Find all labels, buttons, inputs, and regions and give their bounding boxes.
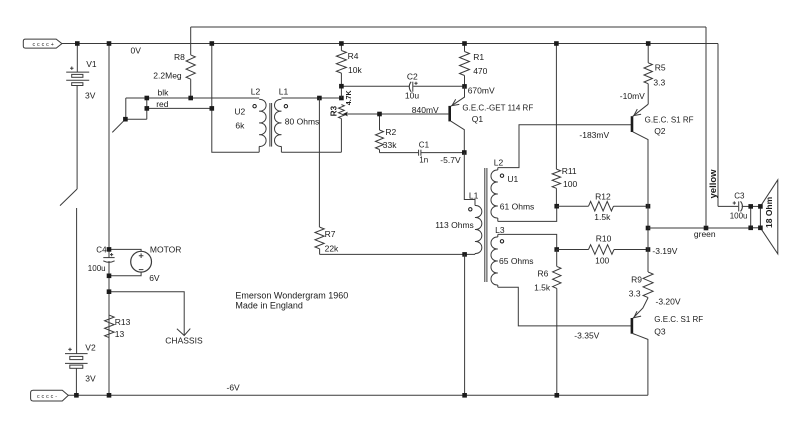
transformer U2 label L2 <box>251 87 261 97</box>
transistor Q2 emitter <box>633 104 648 116</box>
wire motor bottom <box>109 272 141 276</box>
svg-text:Q3: Q3 <box>654 327 666 337</box>
transistor Q2 type label <box>645 115 694 124</box>
transformer U2 designator <box>234 107 245 117</box>
wire V2 to -6V rail <box>75 368 77 395</box>
resistor R13 <box>105 315 115 338</box>
node L1 top junction <box>317 96 322 101</box>
svg-text:R7: R7 <box>325 229 336 239</box>
resistor R12 <box>557 201 648 211</box>
potentiometer R3 element <box>339 105 345 153</box>
svg-text:113 Ohms: 113 Ohms <box>435 220 474 230</box>
svg-text:G.E.C.-GET 114 RF: G.E.C.-GET 114 RF <box>462 103 533 112</box>
switch S1 blade (open) <box>60 189 77 206</box>
node R10 collector junction <box>646 247 651 252</box>
capacitor C3 polarity <box>733 201 736 204</box>
transformer U1 designator <box>507 174 518 184</box>
svg-text:R3: R3 <box>329 105 338 116</box>
node R10 left junction <box>554 247 559 252</box>
node R5 0V junction <box>646 41 651 46</box>
speaker value 18 Ohm <box>764 196 774 228</box>
resistor R13 value <box>115 329 125 339</box>
node R9 voltage label <box>656 296 681 306</box>
battery V1 label <box>86 59 97 69</box>
node blk-loop junction <box>145 96 150 101</box>
transformer U2 secondary winding L1 <box>275 99 282 152</box>
capacitor C4 label <box>96 246 107 255</box>
svg-text:L3: L3 <box>495 225 505 235</box>
title line 2 <box>235 300 303 310</box>
transformer U1 L3 value <box>499 256 534 266</box>
resistor R4 <box>336 44 346 99</box>
transformer U1 core <box>485 168 487 282</box>
svg-text:670mV: 670mV <box>468 86 495 96</box>
transistor Q1 collector <box>451 121 464 152</box>
svg-text:-183mV: -183mV <box>579 130 609 140</box>
resistor R7 value <box>325 243 339 253</box>
resistor R2 <box>376 114 384 153</box>
svg-text:R8: R8 <box>174 52 185 62</box>
transformer U2 secondary phase dot <box>284 105 287 108</box>
battery V2 label <box>85 342 96 352</box>
node stylus junction <box>123 117 128 122</box>
node R8-blk junction <box>188 96 193 101</box>
svg-text:22k: 22k <box>325 243 339 253</box>
title line 1 <box>235 291 348 301</box>
svg-text:-3.19V: -3.19V <box>652 246 677 256</box>
svg-text:CHASSIS: CHASSIS <box>165 336 203 346</box>
wire L3 bottom to Q3 base <box>498 287 631 326</box>
wire 0V rail <box>62 43 718 45</box>
svg-text:V1: V1 <box>86 59 97 69</box>
svg-text:V2: V2 <box>85 342 96 352</box>
node feedback takeoff <box>704 226 709 231</box>
svg-text:cccc-: cccc- <box>37 394 59 400</box>
speaker horn <box>760 180 777 254</box>
svg-text:840mV: 840mV <box>412 105 439 115</box>
transformer U1 L2 phase dot <box>500 174 503 177</box>
wire switch to V2 <box>76 208 78 354</box>
resistor R8 label <box>174 52 185 62</box>
svg-text:C3: C3 <box>734 192 745 201</box>
resistor R13 label <box>115 317 131 327</box>
svg-text:G.E.C. S1 RF: G.E.C. S1 RF <box>654 315 703 324</box>
node C1 collector junction <box>462 150 467 155</box>
capacitor C2 <box>409 82 464 92</box>
resistor R10 value <box>595 255 609 265</box>
transistor Q3 type label <box>654 315 703 324</box>
resistor R9 label <box>631 274 642 284</box>
node Q1 base voltage label <box>412 105 439 115</box>
wire Q2 collector down <box>647 206 649 272</box>
capacitor C2 label <box>407 72 418 82</box>
transistor Q3 emitter arrow <box>634 311 641 318</box>
transformer U1 primary value <box>435 220 474 230</box>
svg-text:L1: L1 <box>469 191 479 201</box>
wire L2 top to Q2 base <box>498 125 631 168</box>
node speaker terminal bottom-left <box>748 226 753 231</box>
node Q1 collector voltage <box>440 155 461 165</box>
node chassis junction <box>107 289 112 294</box>
resistor R10 <box>557 245 648 255</box>
resistor R12 value <box>594 212 611 222</box>
svg-text:G.E.C. S1 RF: G.E.C. S1 RF <box>645 115 694 124</box>
node motor bottom junction <box>107 274 112 279</box>
svg-text:MOTOR: MOTOR <box>150 245 181 255</box>
transformer U1 primary label L1 <box>469 191 479 201</box>
node motor top junction <box>107 247 112 252</box>
node L1 top to R4 junction <box>339 96 344 101</box>
svg-text:R12: R12 <box>595 192 611 202</box>
speaker driver box <box>751 206 761 227</box>
svg-text:6k: 6k <box>235 121 245 131</box>
svg-text:cccc+: cccc+ <box>33 42 56 48</box>
motor M1 <box>131 251 152 272</box>
svg-text:100u: 100u <box>88 264 106 273</box>
transistor Q2 designator <box>654 126 666 136</box>
node primary bottom junction <box>462 252 467 257</box>
node R1 rail junction <box>462 41 467 46</box>
capacitor C1 value <box>419 155 428 164</box>
node R11 0V junction <box>554 41 559 46</box>
wire Q1 collector to U1 primary <box>464 153 475 206</box>
wire red lead <box>147 107 212 109</box>
resistor R11 <box>552 44 560 207</box>
node V1 rail junction <box>75 41 80 46</box>
svg-text:3.3: 3.3 <box>653 77 665 87</box>
node R6 -6V junction <box>555 393 560 398</box>
node speaker terminal top-left <box>748 204 753 209</box>
resistor R1 label <box>473 52 484 62</box>
pickup stylus arm <box>112 119 125 132</box>
svg-text:10u: 10u <box>405 91 419 101</box>
pickup cartridge loop <box>126 98 147 119</box>
node R4 rail junction <box>339 41 344 46</box>
transistor Q3 collector <box>633 334 648 396</box>
resistor R7 label <box>325 229 336 239</box>
node Q1 emitter junction <box>462 84 467 89</box>
transformer U1 L3 phase dot <box>500 240 503 243</box>
svg-text:C1: C1 <box>419 141 430 150</box>
wire L3 top to R10 node <box>498 234 557 249</box>
resistor R5 value <box>653 77 665 87</box>
svg-text:red: red <box>156 99 169 109</box>
resistor R5 <box>644 44 652 105</box>
node R2 base junction <box>377 112 382 117</box>
svg-text:R5: R5 <box>655 62 666 72</box>
resistor R9 value <box>629 288 641 298</box>
transistor Q2 bar <box>631 116 634 132</box>
svg-text:1.5k: 1.5k <box>534 283 551 293</box>
svg-text:10k: 10k <box>348 65 362 75</box>
resistor R2 label <box>385 127 396 137</box>
transistor Q2 emitter arrow <box>634 109 641 116</box>
svg-text:Q1: Q1 <box>472 114 484 124</box>
wire U1 primary bottom <box>320 253 475 255</box>
svg-text:R11: R11 <box>562 166 577 176</box>
svg-text:2.2Meg: 2.2Meg <box>153 70 182 80</box>
svg-text:U1: U1 <box>507 174 518 184</box>
svg-text:3V: 3V <box>85 374 96 384</box>
motor value 6V <box>149 273 160 283</box>
resistor R4 label <box>348 51 359 61</box>
svg-text:1n: 1n <box>419 155 428 164</box>
node Q2 emitter voltage <box>620 91 645 101</box>
svg-text:yellow: yellow <box>708 169 719 199</box>
node primary -6V junction <box>462 393 467 398</box>
resistor R4 value <box>348 65 362 75</box>
transformer U1 label L2 <box>494 158 504 168</box>
svg-text:Emerson Wondergram 1960: Emerson Wondergram 1960 <box>235 291 348 301</box>
node -6V label <box>227 383 241 393</box>
transformer U1 primary phase dot <box>469 208 472 211</box>
wire U2 secondary top <box>281 97 341 99</box>
svg-text:-6V: -6V <box>227 383 241 393</box>
wire 0V to red and U2 primary bottom <box>212 44 259 153</box>
transformer U1 label L3 <box>495 225 505 235</box>
wire L2 bottom to R12 node <box>498 206 557 221</box>
node C2 R4 junction <box>339 84 344 89</box>
battery V2 value 3V <box>85 374 96 384</box>
svg-text:R1: R1 <box>473 52 484 62</box>
node speaker terminal top-right <box>758 204 763 209</box>
wire 0V rail right drop <box>717 44 719 207</box>
svg-text:L2: L2 <box>251 87 261 97</box>
resistor R5 label <box>655 62 666 72</box>
node Q3 base voltage <box>574 330 599 340</box>
resistor R2 value <box>383 140 397 150</box>
battery V1 top lead <box>76 44 78 73</box>
capacitor C3 label <box>734 192 745 201</box>
wire left bus (motor branch) <box>108 44 110 396</box>
svg-text:18 Ohm: 18 Ohm <box>764 196 774 228</box>
transformer U1 secondary winding L2 <box>491 168 498 222</box>
svg-text:3.3: 3.3 <box>629 288 641 298</box>
connector cccc- flag <box>31 390 69 401</box>
resistor R11 label <box>562 166 577 176</box>
svg-text:-3.20V: -3.20V <box>656 296 681 306</box>
battery V2 <box>65 348 88 369</box>
svg-text:100u: 100u <box>730 211 748 220</box>
resistor R6 label <box>538 269 549 279</box>
svg-text:6V: 6V <box>149 273 160 283</box>
transistor Q3 bar <box>631 318 634 334</box>
wire speaker (green) line <box>648 227 751 229</box>
resistor R6 value <box>534 283 551 293</box>
svg-text:L2: L2 <box>494 158 504 168</box>
svg-text:0V: 0V <box>131 46 142 56</box>
svg-text:R9: R9 <box>631 274 642 284</box>
potentiometer R3 label <box>329 105 338 116</box>
potentiometer R3 wiper arrow <box>343 112 348 117</box>
capacitor C3 value <box>730 211 748 220</box>
svg-text:100: 100 <box>563 179 577 189</box>
svg-text:R6: R6 <box>538 269 549 279</box>
capacitor C2 value <box>405 91 419 101</box>
svg-text:-10mV: -10mV <box>620 91 645 101</box>
svg-text:13: 13 <box>115 329 125 339</box>
transformer U1 L2 value <box>500 201 535 211</box>
svg-text:65 Ohms: 65 Ohms <box>499 256 534 266</box>
svg-text:80 Ohms: 80 Ohms <box>285 117 320 127</box>
wire primary bottom to -6V rail <box>464 254 466 395</box>
label yellow <box>708 169 719 199</box>
resistor R10 label <box>596 234 612 244</box>
transformer U1 secondary winding L3 <box>491 234 498 287</box>
resistor R12 label <box>595 192 611 202</box>
label red <box>156 99 169 109</box>
transistor Q2 collector <box>633 132 648 206</box>
svg-text:L1: L1 <box>279 87 289 97</box>
label CHASSIS <box>165 336 203 346</box>
svg-text:R10: R10 <box>596 234 612 244</box>
transformer U2 label L1 <box>279 87 289 97</box>
capacitor C1 <box>419 150 465 156</box>
node speaker terminal bottom-right <box>758 226 763 231</box>
svg-text:R2: R2 <box>385 127 396 137</box>
svg-text:U2: U2 <box>234 107 245 117</box>
svg-text:Q2: Q2 <box>654 126 666 136</box>
node red-loop junction <box>145 106 150 111</box>
transistor Q1 designator <box>472 114 484 124</box>
node speaker line junction <box>646 226 651 231</box>
transistor Q1 type label <box>462 103 533 112</box>
wire R3 wiper to Q1 base <box>347 113 449 115</box>
node U2 rail junction <box>210 41 215 46</box>
svg-text:blk: blk <box>158 88 170 98</box>
transformer U2 primary value 6k <box>235 121 245 131</box>
capacitor C2 polarity <box>414 82 417 85</box>
resistor R1 <box>460 44 470 87</box>
transistor Q1 emitter arrow <box>452 99 459 105</box>
transformer U2 core <box>270 103 272 147</box>
svg-text:100: 100 <box>595 255 609 265</box>
svg-text:green: green <box>694 229 716 239</box>
svg-text:1.5k: 1.5k <box>594 212 611 222</box>
svg-text:R4: R4 <box>348 51 359 61</box>
node red tap junction <box>210 106 215 111</box>
wire 0V to C3 <box>718 205 738 207</box>
potentiometer R3 value 4.7K <box>346 90 353 105</box>
label green <box>694 229 716 239</box>
node R12 collector junction <box>646 204 651 209</box>
node 0V label <box>131 46 142 56</box>
svg-text:-5.7V: -5.7V <box>440 155 461 165</box>
capacitor C4 polarity <box>110 253 113 256</box>
capacitor C4 value <box>88 264 106 273</box>
resistor R6 <box>553 250 561 396</box>
resistor R7 <box>315 98 324 254</box>
resistor R1 value <box>473 66 487 76</box>
svg-text:470: 470 <box>473 66 487 76</box>
battery V1 <box>66 67 89 86</box>
transistor Q3 designator <box>654 327 666 337</box>
svg-text:3V: 3V <box>85 90 96 100</box>
battery V1 value 3V <box>85 90 96 100</box>
wire motor top <box>109 249 141 251</box>
wire R2 to C1 <box>380 152 419 154</box>
svg-text:-3.35V: -3.35V <box>574 330 599 340</box>
node R10 voltage label <box>652 246 677 256</box>
svg-text:Made in England: Made in England <box>235 300 303 310</box>
resistor R8 <box>186 27 195 98</box>
capacitor C4 <box>103 258 114 263</box>
motor label <box>150 245 181 255</box>
node left bus rail junction <box>107 41 112 46</box>
transformer U2 primary winding L2 <box>259 99 266 152</box>
svg-text:C4: C4 <box>96 246 107 255</box>
wire V1 to switch <box>76 86 78 190</box>
wire feedback right drop to speaker line <box>705 27 707 226</box>
svg-text:C2: C2 <box>407 72 418 82</box>
svg-text:4.7K: 4.7K <box>346 90 353 105</box>
transistor Q1 bar <box>448 106 451 122</box>
resistor R11 value <box>563 179 577 189</box>
node Q2 base voltage <box>579 130 609 140</box>
wire bottom -6V rail <box>68 394 648 396</box>
node R11 R12 junction <box>554 204 559 209</box>
wire R4 node to C2 <box>341 85 409 87</box>
wire chassis line <box>109 292 184 336</box>
capacitor C3 <box>739 201 751 211</box>
node left bus -6V junction <box>107 393 112 398</box>
svg-text:33k: 33k <box>383 140 397 150</box>
svg-text:R13: R13 <box>115 317 131 327</box>
label blk <box>158 88 170 98</box>
transformer U1 primary winding L1 <box>475 205 482 254</box>
capacitor C1 label <box>419 141 430 150</box>
node Q1 emitter voltage <box>468 86 495 96</box>
wire U2 secondary bottom <box>281 151 341 153</box>
node V2 rail junction <box>74 393 79 398</box>
svg-text:61 Ohms: 61 Ohms <box>500 201 535 211</box>
wire blk lead <box>126 97 259 99</box>
resistor R8 value <box>153 70 182 80</box>
chassis ground arrow <box>177 329 190 336</box>
connector cccc+ flag <box>23 39 62 48</box>
transformer U2 primary phase dot <box>253 105 256 108</box>
transformer U2 secondary value <box>285 117 320 127</box>
resistor R9 <box>633 272 653 318</box>
wire feedback line from output to R8 (top) <box>191 26 706 28</box>
transistor Q1 emitter <box>451 86 465 106</box>
